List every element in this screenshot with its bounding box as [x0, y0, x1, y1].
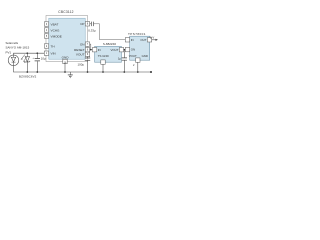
svg-text:GND: GND [142, 54, 148, 58]
svg-text:100µ: 100µ [78, 62, 85, 66]
node cap top [36, 52, 38, 54]
rail junctions [26, 71, 138, 73]
IC3 pin names [129, 38, 148, 58]
ground symbol [68, 72, 73, 78]
output arrow [156, 39, 158, 41]
IC2 pin numbers [94, 50, 123, 64]
IC2 pin names [98, 48, 119, 58]
svg-text:+: + [33, 58, 35, 60]
svg-text:IN: IN [131, 38, 134, 42]
svg-text:SANYO AM-1815: SANYO AM-1815 [6, 46, 30, 50]
IC1 left pin boxes [44, 22, 48, 56]
svg-text:VIN: VIN [51, 51, 56, 55]
svg-text:OUT: OUT [140, 38, 146, 42]
node zener top [26, 52, 28, 54]
IC3 body [130, 36, 150, 60]
IC2 pin boxes [92, 48, 123, 65]
svg-text:S-882Z46: S-882Z46 [103, 42, 117, 46]
svg-text:VOUT: VOUT [129, 54, 137, 58]
svg-text:2: 2 [133, 64, 135, 67]
wire PV top to VIN pin [14, 53, 45, 55]
IC1 body [46, 16, 88, 62]
solar cell PV1 [8, 55, 19, 66]
svg-text:VOUT: VOUT [76, 53, 85, 57]
svg-text:CBC3112: CBC3112 [58, 10, 73, 14]
IC3 GND wire [137, 62, 139, 72]
svg-text:IN: IN [98, 48, 101, 52]
IC3 pin boxes [125, 38, 151, 63]
svg-text:RESET: RESET [74, 48, 84, 52]
capacitor C1 [35, 53, 40, 72]
node interstage [123, 49, 125, 51]
svg-text:BZX85C6V2: BZX85C6V2 [19, 75, 37, 79]
svg-text:1µ: 1µ [118, 56, 122, 60]
IC1 pin numbers [46, 24, 89, 65]
charge pump capacitor 0,33µ [90, 22, 126, 40]
output wire [152, 39, 156, 41]
VOUT buffer capacitor [85, 57, 90, 73]
svg-text:PV1: PV1 [6, 51, 12, 55]
svg-text:VCHG: VCHG [51, 28, 61, 32]
svg-text:ON: ON [131, 48, 135, 52]
IC1 bottom pin box [63, 59, 67, 63]
bottom ground rail [14, 66, 152, 73]
svg-text:TPS78001: TPS78001 [128, 32, 146, 36]
svg-text:Solarcells: Solarcells [6, 41, 19, 45]
node ON/RESET junction [90, 49, 92, 51]
svg-text:TH: TH [51, 44, 55, 48]
svg-text:TS GND: TS GND [98, 54, 109, 58]
svg-text:VMODE: VMODE [51, 34, 62, 38]
IC2 body [95, 46, 122, 62]
IC1 pin names [51, 22, 85, 60]
wire ON pin down to RESET net [90, 44, 93, 50]
svg-text:10µ: 10µ [41, 56, 46, 60]
IC2 GND wire [102, 64, 104, 72]
svg-text:ON: ON [80, 42, 85, 46]
svg-text:GND: GND [62, 56, 70, 60]
svg-text:VOUT: VOUT [110, 48, 118, 52]
interstage capacitor 1µ [122, 50, 127, 72]
IC1 GND wire [64, 64, 66, 72]
light arrows [21, 55, 27, 62]
IC3 pin numbers [127, 40, 151, 62]
IC1 right pin boxes [85, 22, 89, 57]
svg-text:CP: CP [80, 22, 84, 26]
svg-text:5 V: 5 V [150, 35, 154, 39]
zener diode D1 [25, 53, 31, 72]
wire IC2 to IC3 [124, 49, 126, 51]
svg-text:VBAT: VBAT [51, 22, 59, 26]
svg-text:0,33µ: 0,33µ [88, 28, 96, 32]
